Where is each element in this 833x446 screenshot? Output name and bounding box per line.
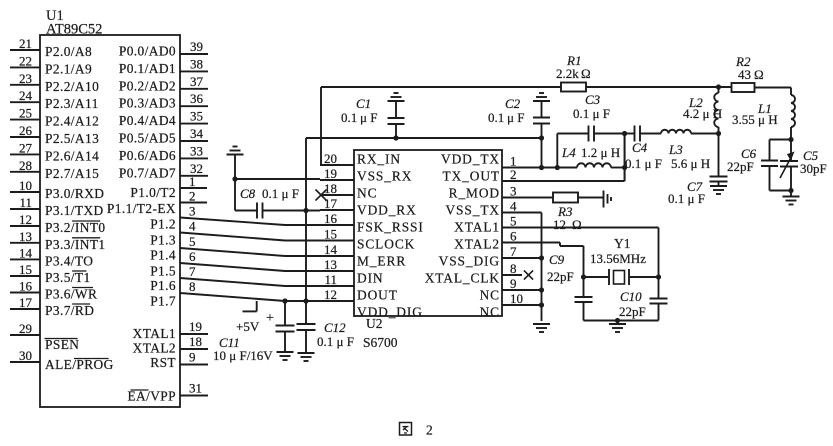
svg-text:P0.6/AD6: P0.6/AD6 [119, 148, 176, 163]
svg-text:22pF: 22pF [547, 269, 574, 284]
svg-text:38: 38 [190, 56, 203, 71]
svg-text:2: 2 [426, 423, 433, 438]
svg-text:1.2 μ H: 1.2 μ H [581, 145, 620, 160]
svg-text:16: 16 [324, 211, 338, 226]
svg-text:μ F: μ F [507, 110, 524, 125]
svg-text:P2.0/A8: P2.0/A8 [45, 44, 92, 59]
svg-text:43: 43 [738, 67, 751, 82]
svg-text:15: 15 [324, 227, 337, 242]
svg-text:ALE/PROG: ALE/PROG [45, 357, 114, 372]
svg-text:14: 14 [19, 245, 33, 260]
svg-text:P3.4/TO: P3.4/TO [45, 253, 93, 268]
svg-text:P3.2/INT0: P3.2/INT0 [45, 220, 106, 235]
svg-text:31: 31 [189, 381, 202, 396]
svg-text:+: + [266, 311, 274, 326]
svg-text:P2.7/A15: P2.7/A15 [45, 166, 99, 181]
svg-text:P3.7/RD: P3.7/RD [45, 303, 94, 318]
svg-text:XTAL2: XTAL2 [133, 341, 176, 356]
svg-text:C9: C9 [549, 252, 565, 267]
svg-text:9: 9 [189, 350, 196, 365]
svg-text:17: 17 [324, 196, 338, 211]
svg-text:22pF: 22pF [727, 159, 754, 174]
svg-text:0.1 μ F: 0.1 μ F [625, 156, 662, 171]
svg-text:5: 5 [189, 234, 196, 249]
svg-text:P3.6/WR: P3.6/WR [45, 287, 97, 302]
svg-text:5.6 μ H: 5.6 μ H [671, 156, 710, 171]
svg-text:4: 4 [510, 199, 517, 214]
svg-text:C12: C12 [324, 320, 346, 335]
svg-text:XTAL2: XTAL2 [454, 236, 500, 251]
svg-text:15: 15 [19, 262, 32, 277]
svg-text:C10: C10 [620, 289, 642, 304]
svg-text:U2: U2 [366, 316, 383, 331]
svg-text:18: 18 [324, 181, 337, 196]
svg-text:P3.3/INT1: P3.3/INT1 [45, 237, 106, 252]
svg-text:P1.1/T2-EX: P1.1/T2-EX [107, 201, 176, 216]
svg-text:0.1 μ F: 0.1 μ F [573, 106, 610, 121]
svg-text:P0.7/AD7: P0.7/AD7 [119, 165, 176, 180]
svg-text:AT89C52: AT89C52 [46, 22, 102, 38]
svg-text:P0.5/AD5: P0.5/AD5 [119, 131, 176, 146]
svg-text:XTAL1: XTAL1 [454, 219, 500, 234]
svg-text:34: 34 [190, 126, 204, 141]
svg-text:13.56MHz: 13.56MHz [590, 251, 646, 266]
svg-text:39: 39 [190, 39, 203, 54]
svg-text:8: 8 [189, 279, 196, 294]
svg-text:Ω: Ω [754, 67, 764, 82]
svg-text:C8: C8 [240, 186, 256, 201]
svg-text:0.1: 0.1 [488, 110, 504, 125]
svg-text:XTAL1: XTAL1 [133, 326, 176, 341]
svg-text:0.1 μ F: 0.1 μ F [317, 334, 354, 349]
svg-text:9: 9 [510, 276, 517, 291]
svg-text:DIN: DIN [357, 270, 384, 285]
svg-text:VSS_RX: VSS_RX [357, 168, 412, 183]
svg-text:M_ERR: M_ERR [357, 253, 406, 268]
svg-text:Y1: Y1 [614, 236, 631, 251]
svg-text:3: 3 [189, 204, 196, 219]
svg-text:VSS_DIG: VSS_DIG [439, 253, 500, 268]
svg-text:5: 5 [510, 214, 517, 229]
svg-text:11: 11 [324, 272, 337, 287]
svg-text:P3.5/T1: P3.5/T1 [45, 270, 91, 285]
svg-text:P1.2: P1.2 [150, 217, 176, 232]
svg-text:SCLOCK: SCLOCK [357, 236, 415, 251]
svg-text:VDD_RX: VDD_RX [357, 202, 417, 217]
svg-text:7: 7 [189, 264, 196, 279]
svg-text:13: 13 [324, 257, 337, 272]
svg-text:24: 24 [19, 88, 33, 103]
svg-text:20: 20 [324, 151, 337, 166]
svg-text:3.55 μ H: 3.55 μ H [732, 112, 778, 127]
svg-text:19: 19 [324, 166, 337, 181]
svg-text:P1.6: P1.6 [150, 278, 176, 293]
svg-text:10: 10 [510, 291, 523, 306]
svg-text:37: 37 [190, 74, 204, 89]
svg-text:6: 6 [510, 229, 517, 244]
svg-text:10 μ F/16V: 10 μ F/16V [213, 348, 273, 363]
svg-text:0.1 μ F: 0.1 μ F [262, 186, 299, 201]
svg-text:P2.5/A13: P2.5/A13 [45, 131, 99, 146]
svg-text:EA/VPP: EA/VPP [127, 389, 176, 404]
svg-text:13: 13 [19, 229, 32, 244]
svg-text:12: 12 [553, 217, 566, 232]
svg-text:18: 18 [189, 334, 202, 349]
svg-text:NC: NC [480, 304, 500, 319]
svg-text:2: 2 [510, 167, 517, 182]
svg-text:TX_OUT: TX_OUT [443, 168, 500, 183]
svg-text:36: 36 [190, 91, 204, 106]
svg-text:33: 33 [190, 143, 203, 158]
svg-text:30pF: 30pF [800, 161, 827, 176]
svg-text:3: 3 [510, 184, 517, 199]
svg-text:29: 29 [19, 321, 32, 336]
svg-text:P0.2/AD2: P0.2/AD2 [119, 78, 176, 93]
svg-text:P2.4/A12: P2.4/A12 [45, 114, 99, 129]
svg-text:22pF: 22pF [619, 304, 646, 319]
svg-text:L3: L3 [668, 142, 683, 157]
svg-text:C3: C3 [585, 92, 601, 107]
svg-text:12: 12 [324, 287, 337, 302]
svg-text:VDD_TX: VDD_TX [441, 151, 500, 166]
svg-text:35: 35 [190, 109, 203, 124]
svg-text:19: 19 [189, 319, 202, 334]
svg-text:S6700: S6700 [363, 335, 398, 350]
svg-text:P1.5: P1.5 [150, 264, 176, 279]
svg-text:P2.6/A14: P2.6/A14 [45, 148, 99, 163]
svg-text:0.1: 0.1 [341, 110, 357, 125]
svg-text:P2.2/A10: P2.2/A10 [45, 79, 99, 94]
svg-text:+5V: +5V [236, 319, 260, 334]
svg-text:P0.0/AD0: P0.0/AD0 [119, 44, 176, 59]
svg-text:8: 8 [510, 261, 517, 276]
svg-text:VSS_TX: VSS_TX [445, 202, 500, 217]
svg-text:P1.4: P1.4 [150, 248, 176, 263]
svg-text:RX_IN: RX_IN [357, 151, 401, 166]
svg-text:C1: C1 [356, 96, 371, 111]
svg-text:27: 27 [19, 140, 33, 155]
svg-text:16: 16 [19, 279, 33, 294]
svg-text:RST: RST [150, 355, 176, 370]
svg-text:Ω: Ω [572, 217, 582, 232]
svg-text:C2: C2 [505, 96, 521, 111]
svg-text:4: 4 [189, 219, 196, 234]
svg-text:P0.1/AD1: P0.1/AD1 [119, 61, 176, 76]
svg-text:P0.4/AD4: P0.4/AD4 [119, 113, 176, 128]
svg-text:NC: NC [480, 287, 500, 302]
svg-text:28: 28 [19, 158, 32, 173]
svg-text:2.2k: 2.2k [556, 66, 579, 81]
svg-text:P2.3/A11: P2.3/A11 [45, 96, 99, 111]
svg-text:P1.7: P1.7 [150, 293, 176, 308]
svg-text:22: 22 [19, 53, 32, 68]
svg-text:P0.3/AD3: P0.3/AD3 [119, 96, 176, 111]
svg-text:2: 2 [189, 189, 196, 204]
svg-text:C4: C4 [632, 140, 648, 155]
svg-text:17: 17 [19, 295, 33, 310]
svg-text:R_MOD: R_MOD [449, 185, 500, 200]
svg-text:Ω: Ω [581, 66, 591, 81]
svg-text:XTAL_CLK: XTAL_CLK [425, 270, 500, 285]
svg-text:0.1 μ F: 0.1 μ F [668, 191, 705, 206]
svg-text:7: 7 [510, 244, 517, 259]
svg-text:10: 10 [19, 178, 32, 193]
svg-text:P1.3: P1.3 [150, 232, 176, 247]
svg-text:12: 12 [19, 212, 32, 227]
svg-text:25: 25 [19, 106, 32, 121]
svg-text:21: 21 [19, 36, 32, 51]
svg-text:μ F: μ F [360, 110, 377, 125]
svg-text:L4: L4 [561, 145, 576, 160]
svg-text:P3.1/TXD: P3.1/TXD [45, 203, 104, 218]
svg-text:11: 11 [19, 195, 32, 210]
svg-text:4.2 μ H: 4.2 μ H [683, 106, 722, 121]
svg-text:1: 1 [189, 174, 196, 189]
svg-text:26: 26 [19, 123, 33, 138]
svg-text:14: 14 [324, 242, 338, 257]
svg-text:30: 30 [19, 348, 32, 363]
svg-text:6: 6 [189, 249, 196, 264]
svg-text:P2.1/A9: P2.1/A9 [45, 61, 92, 76]
svg-text:FSK_RSSI: FSK_RSSI [357, 219, 424, 234]
svg-text:P3.0/RXD: P3.0/RXD [45, 186, 104, 201]
svg-text:PSEN: PSEN [45, 337, 79, 352]
svg-text:P1.0/T2: P1.0/T2 [130, 185, 176, 200]
svg-text:23: 23 [19, 71, 32, 86]
svg-text:DOUT: DOUT [357, 287, 398, 302]
svg-text:NC: NC [357, 185, 377, 200]
